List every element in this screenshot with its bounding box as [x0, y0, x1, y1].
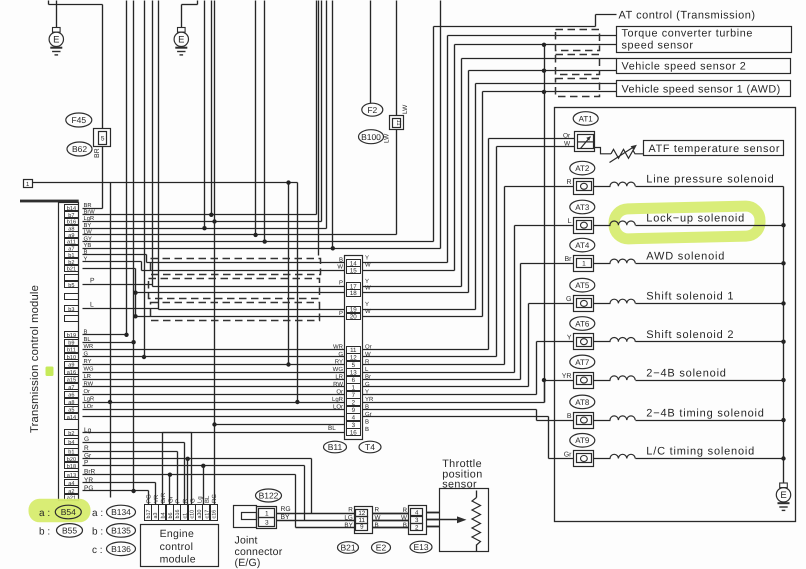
wire b18 P long run to B21 pin11	[83, 465, 305, 467]
TPS wiper arrow	[440, 519, 459, 521]
svg-text:Line pressure solenoid: Line pressure solenoid	[646, 174, 774, 186]
svg-text:R: R	[402, 507, 407, 514]
wire b1 R to ECM	[83, 451, 178, 453]
oval F45	[66, 113, 92, 127]
wire b5 P to pin17	[83, 284, 153, 286]
wire a11 GY to AT control	[83, 241, 434, 243]
wire pin2 YR to AT7	[363, 402, 545, 404]
oval B62	[67, 142, 92, 156]
svg-text:b16: b16	[67, 219, 76, 226]
wire branch to ECM from BrR row	[169, 475, 171, 505]
B11 pin 11	[347, 347, 361, 354]
oval E13	[410, 541, 432, 553]
svg-text:Gr: Gr	[564, 451, 572, 458]
svg-text:b19: b19	[67, 332, 76, 339]
wire b20 Gr long run to B21 pin12	[83, 458, 312, 460]
wire vertical riser x144	[144, 1, 146, 357]
svg-text:a15: a15	[67, 378, 76, 384]
svg-text:1: 1	[265, 510, 269, 517]
wire junction riser x214 long	[214, 1, 216, 505]
svg-text:BrR: BrR	[160, 492, 167, 503]
AT8 coil	[594, 420, 611, 422]
svg-text:Engine: Engine	[160, 528, 195, 540]
wire junction riser x204	[204, 1, 206, 229]
svg-text:B: B	[365, 419, 369, 426]
wire pin20 to VSS1 lower	[363, 316, 483, 318]
svg-text:12: 12	[350, 354, 357, 361]
TCM pin a2	[65, 488, 79, 494]
wire b21 shield drain	[83, 268, 136, 270]
TCM pin b16	[65, 219, 79, 225]
svg-text:20: 20	[350, 314, 357, 321]
junction dot AT5 bus	[781, 301, 785, 305]
TCM pin b2	[65, 259, 79, 265]
B11 pin 4	[347, 414, 361, 421]
AT5 coil	[594, 303, 611, 305]
svg-text:c16: c16	[212, 510, 218, 519]
wire pin13 L to AT3	[363, 372, 515, 374]
svg-text:Y: Y	[365, 301, 369, 308]
svg-text:E13: E13	[413, 542, 428, 552]
svg-text:Torque converter turbine: Torque converter turbine	[622, 28, 753, 40]
svg-text:9: 9	[360, 524, 364, 531]
wire pin1 G to AT5	[363, 386, 529, 388]
svg-text:T4: T4	[365, 442, 375, 452]
svg-text:11: 11	[395, 119, 402, 126]
svg-text:a :: a :	[39, 508, 50, 519]
AT6 connector	[574, 334, 594, 350]
svg-text:R: R	[566, 179, 571, 186]
wire b1 B to pin14	[83, 254, 147, 256]
TCM pin a6	[65, 392, 79, 398]
svg-text:AT2: AT2	[575, 164, 590, 173]
svg-text:W: W	[365, 284, 371, 291]
wire branch to ECM from P row	[203, 466, 205, 505]
wire a13 BrR long run to B21 pin9	[83, 474, 296, 476]
TCM pin a9	[65, 362, 79, 368]
svg-text:BL: BL	[204, 495, 211, 503]
svg-text:B100: B100	[361, 132, 381, 142]
svg-text:LOr: LOr	[333, 404, 343, 411]
TCM pin blank2	[65, 294, 79, 300]
box Vehicle speed sensor 1 (AWD)	[617, 81, 791, 97]
svg-text:LgR: LgR	[332, 396, 344, 403]
wire pin11 Or to AT1	[363, 349, 489, 351]
wire b2 Y to pin15	[83, 261, 142, 263]
TCM pin b11	[65, 347, 79, 353]
svg-text:a11: a11	[67, 240, 76, 246]
wire TCM row LgR y402	[83, 402, 345, 404]
junction dot AT6 bus	[781, 340, 785, 344]
wire a9 LW to B100	[83, 234, 397, 236]
thermistor arrow	[610, 147, 634, 163]
svg-text:3: 3	[265, 519, 269, 526]
fuse lower wire to TCM pin b14	[102, 147, 104, 209]
TCM pin a8	[65, 226, 79, 232]
svg-text:speed sensor: speed sensor	[622, 40, 694, 52]
svg-text:ATF temperature sensor: ATF temperature sensor	[649, 143, 781, 155]
B11 pin 20	[347, 313, 361, 320]
svg-text:a :: a :	[92, 508, 103, 519]
svg-text:BR: BR	[94, 148, 101, 158]
AT3 coil	[594, 225, 611, 227]
solenoid return bus	[783, 187, 785, 483]
wire junction riser x255	[255, 1, 257, 235]
connector B21 block	[355, 507, 373, 534]
svg-text:15: 15	[350, 267, 357, 274]
svg-text:2: 2	[415, 524, 419, 531]
wire pin15 to torque sensor lower	[363, 270, 455, 272]
svg-text:RW: RW	[333, 381, 343, 388]
AT2 coil	[594, 186, 611, 188]
svg-text:R: R	[182, 498, 189, 503]
svg-text:b :: b :	[39, 527, 50, 538]
svg-text:YR: YR	[153, 494, 160, 503]
svg-text:B55: B55	[62, 525, 77, 535]
TCM pin a14	[65, 414, 79, 420]
svg-text:B135: B135	[111, 525, 131, 535]
TCM pin b20	[65, 456, 79, 462]
wire b4 G to ECM	[83, 442, 185, 444]
svg-text:P: P	[339, 310, 343, 317]
B11 pin 15	[347, 267, 361, 274]
svg-text:AT1: AT1	[579, 114, 594, 123]
svg-text:a13: a13	[67, 473, 76, 479]
svg-text:16: 16	[350, 429, 357, 436]
AT assembly outline box	[555, 108, 796, 522]
svg-text:a7: a7	[68, 385, 74, 391]
svg-text:R: R	[348, 507, 353, 514]
shield box 1	[151, 259, 321, 275]
oval AT9	[570, 434, 595, 448]
wire a4 YR to ECM	[83, 482, 156, 484]
Transmission control module block	[59, 203, 79, 501]
wire riser x158 to b3 row	[158, 1, 160, 310]
svg-text:LW: LW	[402, 104, 409, 114]
svg-text:G: G	[566, 296, 571, 303]
svg-text:W: W	[564, 141, 571, 148]
svg-text:B: B	[84, 330, 88, 336]
wire junction riser x332	[332, 1, 334, 249]
TCM pin b10	[65, 354, 79, 360]
svg-text:4: 4	[352, 414, 356, 421]
svg-text:Lg: Lg	[197, 496, 204, 503]
wire pin14 to torque sensor upper	[363, 262, 448, 264]
wire branch to ECM from Gr row	[187, 459, 189, 505]
svg-text:Lock−up solenoid: Lock−up solenoid	[646, 212, 745, 224]
svg-text:E: E	[53, 35, 59, 46]
B11 pin 7	[347, 392, 361, 399]
connector E13 block	[409, 506, 427, 535]
TCM pin a15	[65, 377, 79, 383]
shield box 2	[149, 279, 320, 299]
wire a2 PG to ECM	[83, 490, 149, 492]
wire vertical riser x126	[126, 1, 128, 335]
TCM pin a7	[65, 384, 79, 390]
ECM pin row	[145, 505, 218, 521]
TCM pin b2	[65, 430, 79, 436]
svg-text:P: P	[339, 280, 343, 287]
svg-text:Vehicle speed sensor 1 (AWD): Vehicle speed sensor 1 (AWD)	[622, 83, 781, 95]
svg-text:Gr: Gr	[167, 496, 174, 503]
svg-text:W: W	[337, 264, 343, 271]
svg-text:E: E	[780, 490, 786, 501]
svg-text:BL: BL	[84, 337, 92, 343]
svg-text:B62: B62	[72, 144, 87, 154]
shield box 3	[151, 303, 320, 321]
wire F2 stub	[370, 1, 372, 104]
svg-text:AT9: AT9	[575, 436, 590, 445]
AT1 output jog	[595, 148, 612, 154]
svg-text:a8: a8	[68, 400, 74, 406]
svg-text:AT7: AT7	[575, 358, 590, 367]
svg-text:c10: c10	[190, 510, 196, 519]
connector box 1	[24, 180, 33, 188]
TCM pin blank1	[65, 275, 79, 281]
TCM pin a7	[65, 246, 79, 252]
AT5 connector	[574, 296, 594, 312]
wire b3 L to pin19	[83, 308, 159, 310]
svg-text:F2: F2	[367, 105, 377, 115]
wire junction riser x264	[264, 1, 266, 242]
oval AT8	[570, 395, 595, 409]
svg-text:P: P	[175, 499, 182, 503]
svg-text:PG: PG	[146, 494, 153, 503]
wire TCM row WR y350	[83, 349, 345, 351]
svg-text:P: P	[90, 278, 95, 285]
oval F2	[362, 103, 383, 116]
AT4 connector	[574, 256, 594, 272]
shield box VSS2	[556, 55, 600, 75]
shield box VSS1	[556, 79, 600, 97]
wire TCM row Or y394	[83, 394, 345, 396]
svg-text:a9: a9	[68, 363, 74, 369]
wire pin3 row to ECM riser	[215, 424, 345, 426]
svg-text:B134: B134	[111, 507, 131, 517]
AT1 connector (ATF sensor pins)	[575, 132, 595, 152]
B11 pin 5	[347, 362, 361, 369]
wire pin17 to VSS2 upper	[363, 286, 462, 288]
svg-text:c1: c1	[182, 513, 188, 519]
wire pin7 Y to AT6	[363, 394, 537, 396]
svg-text:3: 3	[352, 422, 356, 429]
wire riser x152 to b5 row	[152, 1, 154, 287]
svg-text:WG: WG	[333, 366, 344, 373]
svg-text:2−4B timing solenoid: 2−4B timing solenoid	[646, 407, 764, 419]
B11 pin 14	[347, 260, 361, 267]
wire TCM row RW y387	[83, 386, 345, 388]
svg-text:LR: LR	[335, 374, 343, 381]
svg-text:4: 4	[415, 510, 419, 517]
svg-text:LG: LG	[344, 515, 353, 522]
TCM pin b9	[65, 340, 79, 346]
svg-text:WG: WG	[84, 366, 94, 373]
svg-text:BY: BY	[281, 514, 291, 521]
B11 pin 19	[347, 307, 361, 314]
wire vertical riser x133	[133, 1, 135, 491]
svg-text:AT3: AT3	[575, 203, 590, 212]
box ATF temperature sensor	[644, 141, 784, 156]
wire b16 LgR	[83, 221, 322, 223]
fuse F45/B62 wire upper	[102, 5, 104, 129]
svg-text:B: B	[403, 522, 407, 529]
svg-text:b4: b4	[161, 513, 167, 519]
wire TCM row G y357	[83, 356, 345, 358]
svg-text:b1: b1	[68, 448, 74, 455]
TCM pin b5	[65, 282, 79, 288]
B11 pin 12	[347, 354, 361, 361]
TCM pin b14	[65, 205, 79, 211]
connector box 11 (B100)	[390, 116, 404, 130]
svg-text:YR: YR	[562, 373, 572, 380]
TCM pin b7	[65, 212, 79, 218]
wires B21 to E13	[373, 513, 409, 515]
highlight a:B54	[29, 499, 91, 523]
svg-text:2−4B solenoid: 2−4B solenoid	[646, 367, 726, 379]
B11 pin 9	[347, 407, 361, 414]
svg-text:Or: Or	[336, 389, 343, 396]
wire b19 stub	[83, 334, 127, 336]
svg-text:b3: b3	[68, 306, 74, 313]
wire B100 upper	[396, 1, 398, 116]
wire riser x297 down	[297, 183, 299, 403]
wire TCM row RY y364	[83, 364, 345, 366]
AT8 connector	[574, 413, 594, 429]
junction dot AT3 bus	[781, 223, 785, 227]
wire b7 BrW	[83, 214, 317, 216]
svg-text:a6: a6	[68, 393, 74, 399]
AT4 coil	[594, 263, 611, 265]
highlight mark green small	[46, 367, 54, 377]
AT2 connector	[574, 179, 594, 195]
wire pin18 to VSS2 lower	[363, 292, 469, 294]
TCM pin b18	[65, 463, 79, 469]
AT9 connector	[574, 451, 594, 467]
TCM pin b19	[65, 332, 79, 338]
wire pin19 to VSS1 upper	[363, 309, 476, 311]
svg-text:1: 1	[582, 261, 586, 268]
svg-text:B11: B11	[328, 442, 343, 452]
TCM pin a8	[65, 399, 79, 405]
oval AT1	[573, 112, 598, 126]
AT7 coil	[594, 380, 611, 382]
svg-text:b4: b4	[68, 439, 74, 446]
TCM pin b4	[65, 439, 79, 445]
wire to ground E2	[197, 1, 199, 5]
Throttle position sensor box	[440, 489, 489, 552]
box Torque converter turbine speed sensor	[617, 27, 792, 53]
TCM pin a5	[65, 407, 79, 413]
ECM wire labels rotated	[146, 492, 219, 503]
TCM pin a11	[65, 239, 79, 245]
junction dot AT4 bus	[781, 261, 785, 265]
wire b2 Lg to ECM	[83, 432, 192, 434]
svg-text:L: L	[568, 218, 572, 225]
wire vertical riser x110	[110, 183, 112, 498]
oval AT2	[570, 161, 595, 175]
svg-text:b11: b11	[67, 347, 76, 354]
B11 pin 6	[347, 377, 361, 384]
wire TCM row LOr y410	[83, 409, 345, 411]
svg-text:L/C timing solenoid: L/C timing solenoid	[646, 446, 755, 458]
svg-text:2: 2	[352, 399, 356, 406]
wire pin20 row	[136, 316, 345, 318]
svg-text:RG: RG	[211, 494, 218, 503]
wire shield drain x544	[544, 45, 546, 403]
svg-text:L: L	[90, 302, 94, 309]
svg-text:B21: B21	[340, 543, 355, 553]
thermistor zigzag ATF	[611, 149, 644, 158]
svg-text:b7: b7	[68, 212, 74, 219]
wire b14 BR to fuse	[83, 208, 103, 210]
svg-text:c17: c17	[204, 510, 210, 519]
wire pin16 BL row to ECM	[163, 432, 345, 434]
AT7 connector	[574, 373, 594, 389]
wire pin12 W to AT1	[363, 356, 497, 358]
wire TCM row LR y380	[83, 379, 345, 381]
wire TCM row a14 y417	[83, 416, 345, 418]
highlight lasso Lock-up solenoid	[614, 206, 761, 239]
wire junction riser x211	[211, 1, 213, 215]
svg-text:b9: b9	[68, 339, 74, 346]
junction dot AT7 bus	[781, 378, 785, 382]
svg-text:b2: b2	[68, 259, 74, 266]
wire pin6 Br to AT4	[363, 379, 521, 381]
TCM pin b21	[65, 266, 79, 272]
wire a8 BY	[83, 228, 327, 230]
B11 pin 3	[347, 422, 361, 429]
svg-text:b2: b2	[68, 430, 74, 437]
svg-text:Joint: Joint	[235, 535, 258, 547]
wire vertical riser x318	[318, 1, 320, 256]
thick bar left of TCM	[20, 200, 79, 203]
AT3 connector	[574, 218, 594, 234]
oval AT3	[570, 200, 595, 214]
B11 pin 16	[347, 429, 361, 436]
TCM pin b1	[65, 449, 79, 455]
svg-text:LW: LW	[384, 133, 391, 143]
oval B21	[338, 542, 359, 554]
svg-text:Shift solenoid 2: Shift solenoid 2	[646, 329, 734, 341]
wires E13 to TPS	[427, 512, 440, 514]
svg-text:AWD solenoid: AWD solenoid	[646, 251, 725, 263]
svg-text:B136: B136	[111, 544, 131, 554]
oval AT4	[570, 238, 595, 252]
wire a7 YB	[83, 248, 441, 250]
AT6 coil	[594, 341, 611, 343]
TCM pin a16	[65, 369, 79, 375]
svg-text:RY: RY	[335, 359, 343, 366]
svg-text:control: control	[160, 541, 194, 553]
oval AT5	[570, 278, 595, 292]
svg-text:7: 7	[352, 392, 356, 399]
wire pin18 row	[136, 292, 345, 294]
svg-text:W: W	[401, 515, 407, 522]
B11 left pin labels	[332, 257, 344, 411]
B11 right pin labels	[365, 255, 374, 433]
svg-text:AT control (Transmission): AT control (Transmission)	[619, 10, 756, 22]
TCM pin a4	[65, 480, 79, 486]
svg-text:E2: E2	[376, 543, 387, 553]
oval T4	[359, 441, 381, 453]
box Vehicle speed sensor 2	[617, 59, 791, 74]
TCM pin a21	[65, 495, 79, 501]
svg-text:Or: Or	[563, 133, 571, 140]
svg-text:G: G	[338, 351, 343, 358]
svg-text:a4: a4	[68, 481, 74, 487]
svg-text:1: 1	[352, 384, 356, 391]
oval B11	[324, 441, 347, 453]
